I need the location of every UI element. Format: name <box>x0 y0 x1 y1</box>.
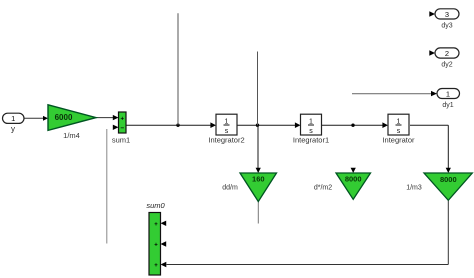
svg-text:2: 2 <box>445 49 449 58</box>
svg-text:−: − <box>120 125 124 132</box>
svg-text:s: s <box>225 128 229 135</box>
svg-text:6000: 6000 <box>55 113 73 122</box>
svg-text:+: + <box>121 116 125 122</box>
svg-text:dy2: dy2 <box>441 62 452 69</box>
svg-text:1: 1 <box>11 114 15 123</box>
svg-text:+: + <box>154 243 158 249</box>
svg-text:dy3: dy3 <box>441 23 452 30</box>
svg-text:sum0: sum0 <box>146 201 165 210</box>
svg-text:s: s <box>309 128 313 135</box>
svg-text:sum1: sum1 <box>112 136 130 145</box>
svg-text:1/m4: 1/m4 <box>63 131 80 140</box>
svg-text:Integrator: Integrator <box>382 136 415 145</box>
svg-text:1/m3: 1/m3 <box>406 185 422 192</box>
svg-text:Integrator1: Integrator1 <box>293 136 329 145</box>
svg-text:3: 3 <box>445 10 449 19</box>
svg-text:y: y <box>11 125 15 134</box>
svg-text:d*/m2: d*/m2 <box>314 185 332 192</box>
svg-text:8000: 8000 <box>345 175 362 184</box>
svg-text:1: 1 <box>309 118 313 125</box>
svg-text:dd/m: dd/m <box>222 185 238 192</box>
svg-text:1: 1 <box>397 118 401 125</box>
svg-text:160: 160 <box>252 175 265 184</box>
svg-text:1: 1 <box>446 89 450 98</box>
svg-text:+: + <box>154 222 158 228</box>
svg-text:dy1: dy1 <box>442 102 453 109</box>
svg-text:Integrator2: Integrator2 <box>208 136 244 145</box>
svg-text:1: 1 <box>225 118 229 125</box>
svg-text:s: s <box>397 128 401 135</box>
svg-text:8000: 8000 <box>440 175 457 184</box>
svg-text:+: + <box>154 263 158 269</box>
